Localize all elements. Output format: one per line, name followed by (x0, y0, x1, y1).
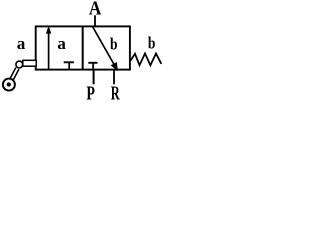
lever pivot circle (16, 61, 23, 68)
return spring (right side) (131, 54, 162, 66)
flow arrow (left chamber, up) (46, 26, 51, 70)
port P stub (93, 70, 95, 85)
chamber divider (82, 26, 84, 69)
svg-text:R: R (111, 82, 121, 105)
svg-text:a: a (17, 34, 26, 53)
svg-text:P: P (86, 82, 95, 104)
svg-text:A: A (89, 0, 102, 20)
label b (inside right chamber) (110, 36, 118, 53)
actuator rod (left, outlined bar) (23, 60, 37, 66)
label A (port A) (89, 0, 102, 20)
label a (outside left) (17, 34, 26, 53)
svg-text:a: a (57, 34, 66, 53)
label R (port R) (111, 82, 121, 105)
label b (outside right, above spring) (148, 35, 156, 52)
valve body box (36, 26, 130, 69)
port A stub (94, 15, 96, 26)
roller circle (3, 79, 15, 91)
roller axle dot (7, 82, 11, 86)
flow path A to R (right chamber diagonal with arrowhead) (93, 27, 118, 72)
port R stub (113, 70, 115, 85)
label P (port P) (86, 82, 95, 104)
blocked port T (left chamber) (64, 62, 74, 69)
blocked port T (right chamber) (88, 63, 97, 70)
svg-text:b: b (148, 35, 156, 52)
lever link bar (11, 68, 18, 81)
label a (inside left chamber) (57, 34, 66, 53)
svg-text:b: b (110, 36, 118, 53)
